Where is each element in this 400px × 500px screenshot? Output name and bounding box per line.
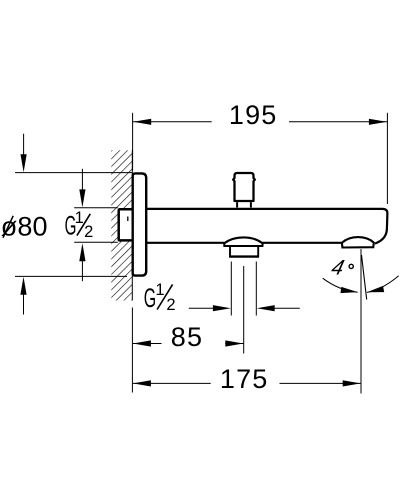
svg-text:G: G xyxy=(144,283,156,313)
dim 175 line xyxy=(133,382,361,384)
dim G1/2 wall bottom extension line xyxy=(74,241,118,243)
nipple thread relief line xyxy=(127,217,129,222)
spout top and right outline xyxy=(146,209,388,244)
spout bottom line right segment xyxy=(263,242,342,244)
diameter slash xyxy=(3,216,13,238)
dim 195 right extension line xyxy=(386,113,388,204)
svg-text:2: 2 xyxy=(166,296,175,314)
label G1/2 wall xyxy=(65,209,94,241)
spout tip aerator xyxy=(342,237,374,247)
dim 195 line xyxy=(133,121,387,123)
dim ø80 top arrow xyxy=(23,134,25,168)
outlet G1/2 right arrow xyxy=(275,307,300,309)
angle arc right arrowhead xyxy=(367,286,384,292)
svg-text:175: 175 xyxy=(220,364,269,394)
wall hatching xyxy=(111,150,132,300)
outlet G1/2 left arrow xyxy=(189,307,214,309)
dim 195 left extension line xyxy=(132,113,134,170)
bottom outlet thread xyxy=(230,247,258,256)
bottom outlet dome xyxy=(224,237,262,246)
label G1/2 outlet xyxy=(144,281,176,314)
spout bottom line left segment xyxy=(146,242,224,244)
dim ø80 top extension line xyxy=(15,172,132,174)
dim ø80 bottom extension line xyxy=(15,275,127,277)
dim ø80 bottom arrow xyxy=(23,281,25,315)
dim G1/2 wall top arrow xyxy=(81,169,83,203)
angle arc right xyxy=(367,276,399,293)
svg-text:1: 1 xyxy=(75,209,84,227)
dim 175 right arrow xyxy=(343,380,361,386)
dim 175 left arrow xyxy=(133,380,151,386)
wall flange xyxy=(133,173,147,275)
svg-text:195: 195 xyxy=(229,100,278,130)
wall thread nipple xyxy=(119,209,133,240)
dim 85 line xyxy=(133,343,244,345)
svg-text:85: 85 xyxy=(171,322,203,352)
bottom outlet thread bottom edge xyxy=(229,255,259,257)
diverter knob neck right xyxy=(250,202,252,207)
dim 85 left arrow xyxy=(133,340,151,346)
angle arc left arrowhead xyxy=(341,287,358,293)
angle arc left xyxy=(323,278,358,292)
dim 85 right arrow xyxy=(225,340,243,346)
dim G1/2 wall bottom arrow xyxy=(81,257,83,281)
spout body fill xyxy=(145,208,388,244)
dim 85/175 left extension line xyxy=(131,308,133,393)
diverter knob body xyxy=(233,173,255,201)
diverter knob neck left xyxy=(236,202,238,207)
dim 175 right extension line xyxy=(360,249,362,394)
angle 4 deg tilted axis line xyxy=(362,255,367,300)
outlet centerline xyxy=(243,266,245,354)
dim G1/2 wall top extension line xyxy=(74,207,118,209)
outlet G1/2 left extension line xyxy=(230,262,232,316)
dim 195 right arrow xyxy=(369,119,387,125)
svg-text:1: 1 xyxy=(155,281,164,299)
svg-text:2: 2 xyxy=(84,223,93,241)
dim 195 left arrow xyxy=(133,119,151,125)
outlet G1/2 right extension line xyxy=(255,262,257,316)
wall face line xyxy=(131,150,133,300)
